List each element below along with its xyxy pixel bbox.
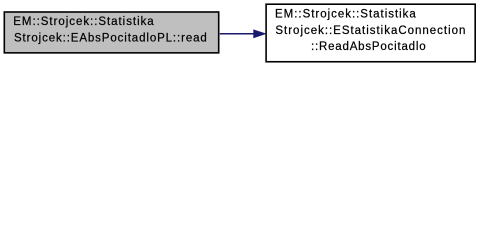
node: EM::Strojcek::Statistika Strojcek::EAbsPocitadloPL::read (current node, grey) [4, 12, 218, 53]
svg-text:EM::Strojcek::Statistika: EM::Strojcek::Statistika [275, 9, 416, 21]
svg-text:EM::Strojcek::Statistika: EM::Strojcek::Statistika [13, 16, 154, 28]
svg-text:::ReadAbsPocitadlo: ::ReadAbsPocitadlo [311, 41, 426, 53]
svg-text:Strojcek::EStatistikaConnectio: Strojcek::EStatistikaConnection [275, 25, 465, 37]
node: EM::Strojcek::Statistika Strojcek::EStatistikaConnection::ReadAbsPocitadlo [266, 4, 475, 62]
edge: call arrow (midnightblue) [220, 30, 266, 38]
svg-text:Strojcek::EAbsPocitadloPL::rea: Strojcek::EAbsPocitadloPL::read [14, 32, 207, 44]
